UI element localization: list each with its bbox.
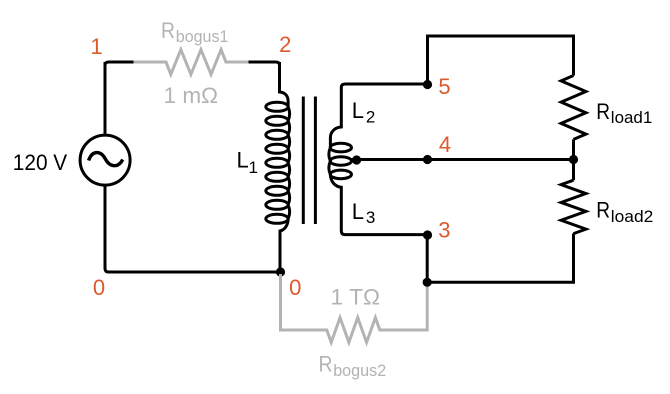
wire: Rload1 bottom to node4 rail [572, 139, 575, 159]
wire: node4 rail down to Rload2 [572, 160, 575, 181]
svg-text:L: L [352, 98, 364, 123]
wire: source bottom lead + bottom-left rail [105, 187, 281, 273]
resistor Rload1 [561, 76, 586, 140]
svg-text:R: R [596, 99, 610, 124]
svg-text:120 V: 120 V [13, 150, 68, 175]
wire: L2 top to node 5 [345, 83, 428, 86]
svg-text:2: 2 [366, 108, 375, 127]
node 5 junction dot [423, 80, 432, 89]
svg-text:load1: load1 [611, 108, 653, 127]
svg-text:5: 5 [438, 74, 450, 99]
label L3 [352, 199, 376, 227]
svg-text:2: 2 [279, 32, 291, 57]
wire: node 2 corner into transformer primary [249, 62, 280, 92]
svg-text:R: R [161, 18, 175, 43]
svg-text:L: L [237, 148, 249, 173]
junction dot: node4/Rload1/Rload2 [569, 155, 578, 164]
transformer core [303, 97, 315, 225]
junction dot node 0 [276, 267, 285, 276]
wire: node 5 up and across top rail to Rload1 [428, 36, 574, 85]
svg-text:bogus1: bogus1 [176, 27, 229, 46]
wire: top-left corner node 1 [105, 62, 134, 134]
svg-text:load2: load2 [611, 207, 654, 226]
svg-text:1 TΩ: 1 TΩ [331, 285, 381, 310]
resistor Rbogus1 (1 mOhm, gray) [134, 50, 249, 75]
label Rload2 [596, 198, 653, 227]
node 3 junction dot [423, 230, 432, 239]
voltage source V1 120 V AC [80, 135, 130, 185]
label Rbogus2 [319, 352, 387, 380]
node 4 marker dot [423, 155, 432, 164]
svg-text:0: 0 [289, 275, 301, 300]
svg-text:L: L [352, 199, 364, 224]
svg-text:1: 1 [90, 34, 102, 59]
wire: center tap node 4 rail [352, 158, 574, 161]
label Rload1 [596, 99, 652, 127]
svg-text:R: R [596, 198, 610, 223]
label L2 [352, 98, 376, 127]
svg-text:4: 4 [439, 132, 451, 157]
wire: L3 bottom to node 3 [345, 233, 428, 236]
svg-text:bogus2: bogus2 [333, 361, 386, 380]
svg-text:R: R [319, 352, 333, 377]
svg-text:0: 0 [93, 275, 105, 300]
label Rbogus1 [161, 18, 228, 46]
wire: Rload2 bottom to bottom-right rail [427, 234, 573, 283]
svg-text:3: 3 [366, 208, 375, 227]
resistor Rload2 [561, 180, 586, 233]
junction dot bottom-right [423, 278, 432, 287]
svg-text:1: 1 [249, 158, 258, 177]
inductor L1 (transformer primary) [266, 62, 290, 272]
svg-text:3: 3 [438, 218, 450, 243]
resistor Rbogus2 (1 TOhm, gray) with leads [281, 274, 428, 342]
svg-text:1 mΩ: 1 mΩ [164, 83, 219, 108]
inductor L2/L3 (transformer secondary, center-tapped) [329, 84, 352, 235]
label L1 [237, 148, 258, 178]
junction dot: center tap [352, 155, 361, 164]
wire: source top lead [104, 62, 107, 134]
